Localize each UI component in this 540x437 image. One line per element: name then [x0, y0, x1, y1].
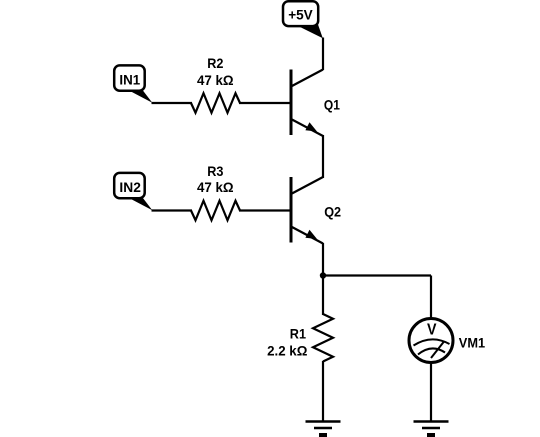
ground under VM1: [414, 422, 449, 437]
svg-text:Q1: Q1: [324, 97, 340, 113]
power flag +5V: [283, 1, 323, 38]
svg-text:+5V: +5V: [288, 7, 313, 23]
wire Q1 emitter to Q2 collector: [322, 135, 324, 178]
svg-text:Q2: Q2: [324, 203, 341, 219]
svg-text:47 kΩ: 47 kΩ: [197, 179, 234, 195]
wire node to R1: [322, 276, 324, 316]
node A junction dot: [320, 272, 326, 278]
svg-text:IN2: IN2: [119, 179, 141, 195]
svg-text:V: V: [427, 322, 437, 339]
label R2 value 47 kOhm: [197, 55, 234, 88]
wire +5V to Q1 collector: [322, 38, 324, 71]
label Q2: [324, 203, 341, 219]
svg-text:47 kΩ: 47 kΩ: [197, 72, 234, 88]
svg-text:R1: R1: [290, 326, 306, 342]
svg-text:IN1: IN1: [119, 72, 140, 88]
svg-text:R3: R3: [207, 163, 223, 179]
wire Q2 emitter to node: [322, 243, 324, 276]
voltmeter VM1: [409, 319, 453, 363]
wire VM1 top: [430, 276, 432, 320]
wire IN2 to R3: [152, 209, 193, 211]
label R3 value 47 kOhm: [197, 163, 234, 195]
wire R1 to ground: [322, 361, 324, 422]
wire VM1 bottom to ground: [430, 362, 432, 422]
wire IN1 to R2: [152, 102, 193, 104]
svg-text:R2: R2: [207, 55, 223, 71]
resistor R3: [191, 201, 240, 221]
wire R2 to Q1 base: [239, 102, 291, 104]
transistor Q2: [291, 177, 323, 244]
net flag IN1: [114, 65, 152, 102]
label Q1: [324, 97, 340, 113]
net flag IN2: [114, 173, 152, 210]
svg-text:VM1: VM1: [459, 334, 485, 350]
ground under R1: [306, 422, 341, 437]
label VM1: [459, 334, 485, 350]
wire node to VM1: [322, 274, 431, 276]
resistor R1: [313, 314, 333, 362]
wire R3 to Q2 base: [239, 209, 291, 211]
label R1 value 2.2 kOhm: [267, 326, 307, 359]
svg-text:2.2 kΩ: 2.2 kΩ: [267, 342, 307, 358]
resistor R2: [191, 93, 240, 113]
transistor Q1: [291, 70, 323, 137]
